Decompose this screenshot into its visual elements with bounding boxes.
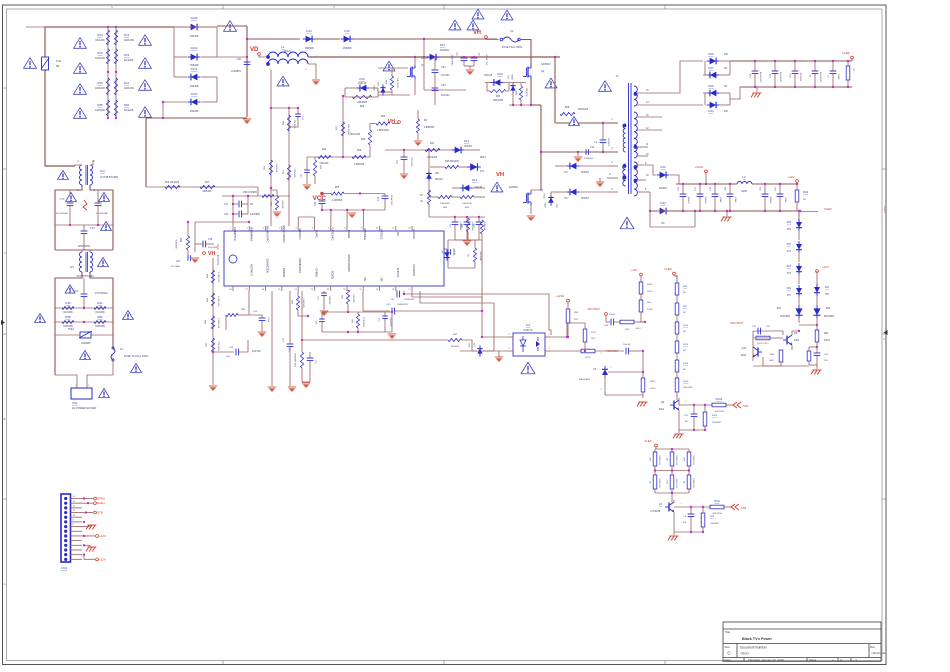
svg-text:6A/1206: 6A/1206 [95,39,105,42]
svg-text:33V: 33V [555,204,557,208]
svg-text:4401: 4401 [659,409,665,411]
svg-text:1.2K/0805: 1.2K/0805 [352,293,354,303]
svg-text:R79 1M/1206: R79 1M/1206 [165,181,180,184]
svg-text:LF2: LF2 [100,169,105,173]
svg-text:LF1: LF1 [70,266,75,269]
svg-text:1000uF: 1000uF [704,196,706,204]
svg-text:10R/1206: 10R/1206 [462,203,472,205]
svg-text:SNSAUXPFC: SNSAUXPFC [266,225,270,242]
svg-text:1uF/0805: 1uF/0805 [250,214,260,216]
svg-text:R23: R23 [124,53,130,57]
svg-text:D106: D106 [191,16,198,20]
svg-text:R82: R82 [124,103,130,107]
svg-text:D13: D13 [497,72,503,76]
svg-text:SUPIC: SUPIC [314,230,318,239]
svg-text:R30: R30 [65,301,71,305]
svg-text:C14: C14 [378,196,380,201]
svg-text:GATELS: GATELS [380,229,384,240]
svg-text:47V: 47V [787,273,792,275]
svg-text:DFNA: DFNA [97,497,105,501]
svg-text:470K/0805: 470K/0805 [362,317,364,328]
svg-text:NC: NC [363,277,367,281]
svg-text:KTC3228: KTC3228 [650,511,660,513]
svg-text:ZD14: ZD14 [544,193,546,199]
svg-text:D100: D100 [191,92,198,96]
svg-text:SNSOUT: SNSOUT [298,228,302,240]
svg-text:47V: 47V [787,251,792,253]
svg-text:D10: D10 [440,43,446,47]
svg-text:NC/1206: NC/1206 [95,312,105,314]
svg-text:10K/1206: 10K/1206 [714,411,724,413]
svg-text:470uF 35V: 470uF 35V [485,55,487,66]
svg-text:SNSMAINS: SNSMAINS [249,227,253,242]
svg-text:500V/68V: 500V/68V [410,157,412,167]
svg-text:101/1KV: 101/1KV [441,75,450,77]
svg-text:Size: Size [725,645,731,649]
svg-text:Black TVn Power: Black TVn Power [742,637,772,641]
svg-text:B: B [4,417,6,421]
svg-text:27V: 27V [480,170,485,173]
svg-text:CY3: CY3 [60,198,65,201]
svg-text:R24: R24 [97,33,103,37]
svg-text:R50: R50 [361,139,366,141]
svg-text:R88: R88 [97,103,103,107]
svg-text:20K/1206: 20K/1206 [683,387,693,389]
svg-text:10KO: 10KO [635,328,641,330]
svg-text:ZD1: ZD1 [787,288,792,290]
svg-text:50V: 50V [226,356,230,358]
svg-text:10R/1/4W: 10R/1/4W [493,100,504,102]
svg-text:6R/0805: 6R/0805 [451,346,460,348]
svg-text:+12V: +12V [631,268,638,272]
svg-text:1M/1206: 1M/1206 [124,39,134,42]
svg-text:SA/500V: SA/500V [509,186,519,189]
svg-text:NC/1206: NC/1206 [63,312,73,314]
svg-text:R115: R115 [683,344,689,346]
svg-text:10KO: 10KO [824,340,830,342]
svg-text:SNSCURHBC: SNSCURHBC [347,254,351,272]
svg-text:IC2B: IC2B [217,244,220,250]
svg-text:NC: NC [683,331,687,333]
svg-text:R104: R104 [716,397,723,401]
svg-text:1N4148: 1N4148 [484,75,493,77]
svg-text:R22: R22 [97,51,103,55]
svg-text:PROTECT: PROTECT [588,307,601,311]
svg-text:D102: D102 [191,46,198,50]
svg-text:100nF: 100nF [784,197,786,204]
svg-text:22N275VAC: 22N275VAC [78,245,91,248]
svg-text:1.5M/1206: 1.5M/1206 [217,296,219,307]
svg-text:R29: R29 [714,499,720,503]
svg-text:SUPHS: SUPHS [396,268,400,278]
svg-text:JUMP: JUMP [741,191,748,193]
svg-text:100uF: 100uF [734,197,736,204]
svg-text:NC: NC [250,204,254,206]
svg-text:FUSE T3.15A L 250V~: FUSE T3.15A L 250V~ [124,355,150,358]
svg-text:DADJ: DADJ [97,501,105,505]
svg-text:NC: NC [724,68,728,70]
svg-text:R91: R91 [803,190,809,194]
svg-text:SUPREG: SUPREG [363,228,367,240]
svg-text:NC: NC [683,292,687,294]
svg-text:1N4148W: 1N4148W [780,316,791,318]
svg-text:5R: 5R [56,64,59,68]
svg-text:C32: C32 [224,214,229,216]
svg-text:100NF/50V: 100NF/50V [404,299,415,301]
svg-text:1N5408: 1N5408 [190,85,199,88]
svg-text:NC: NC [803,199,807,201]
svg-text:+12VA: +12VA [695,165,704,169]
svg-text:10K/1206: 10K/1206 [712,513,722,515]
svg-text:D23: D23 [826,308,831,310]
svg-text:1N5408: 1N5408 [190,35,199,38]
svg-text:D101: D101 [191,67,198,71]
svg-text:10R/0805: 10R/0805 [440,203,450,205]
svg-text:10K/1/4W: 10K/1/4W [479,251,481,260]
svg-text:2.2R/0805: 2.2R/0805 [293,168,295,178]
svg-text:UF4007: UF4007 [452,248,454,256]
svg-text:NC: NC [661,223,665,225]
svg-text:6A/600V: 6A/600V [440,49,450,52]
svg-text:100nF: 100nF [837,74,839,81]
svg-text:CN2: CN2 [72,401,78,405]
svg-text:BAV40BV: BAV40BV [824,315,835,318]
svg-text:1M/1206: 1M/1206 [124,87,134,90]
svg-text:+LED: +LED [883,205,887,212]
svg-text:9.1V: 9.1V [474,342,476,347]
svg-text:D16: D16 [359,77,365,81]
svg-text:C34: C34 [176,261,181,263]
svg-text:22.5*28.5*10MM: 22.5*28.5*10MM [76,276,93,278]
svg-text:6A/1206: 6A/1206 [124,59,134,62]
svg-text:16V: 16V [378,82,380,86]
svg-text:RCPROT: RCPROT [249,264,253,276]
svg-text:ZD1: ZD1 [825,287,830,289]
svg-text:3.9K/0805: 3.9K/0805 [302,298,304,308]
svg-text:+12V: +12V [99,534,106,538]
svg-text:R89: R89 [97,315,103,319]
svg-text:TEA1716: TEA1716 [217,254,220,265]
svg-text:SNSCURPFC: SNSCURPFC [282,225,286,242]
svg-text:1.5M/1206: 1.5M/1206 [217,272,219,283]
svg-text:104 50V: 104 50V [252,350,261,353]
svg-text:C37: C37 [224,204,229,206]
svg-text:2.2uF/50V: 2.2uF/50V [389,317,391,327]
svg-text:68uF/450V: 68uF/450V [452,54,454,65]
svg-text:C84: C84 [237,58,242,61]
svg-text:101/1KV: 101/1KV [441,95,450,97]
svg-text:1000uF: 1000uF [769,196,771,204]
svg-text:1.88A/1206: 1.88A/1206 [377,129,389,132]
svg-text:27K/0805: 27K/0805 [217,341,219,351]
svg-text:SUPHV: SUPHV [412,229,416,239]
svg-text:D11: D11 [464,139,469,143]
svg-text:CP1: CP1 [441,66,446,69]
svg-text:82uF/160V: 82uF/160V [779,72,781,83]
svg-text:82uF/160V: 82uF/160V [759,72,761,83]
svg-text:43K/0805: 43K/0805 [293,120,295,129]
svg-text:R73: R73 [124,33,130,37]
svg-text:10KO: 10KO [650,388,656,390]
svg-text:1KO: 1KO [591,338,596,340]
svg-text:1M/1206: 1M/1206 [95,57,105,60]
svg-text:R21: R21 [124,81,130,85]
svg-text:IC1: IC1 [526,323,531,327]
svg-text:150K/1206: 150K/1206 [658,455,660,466]
svg-text:471/400VAC: 471/400VAC [56,212,69,215]
svg-text:R26: R26 [97,81,103,85]
svg-text:ZD13: ZD13 [480,156,487,159]
svg-text:C17: C17 [397,159,399,164]
svg-text:10R/0805: 10R/0805 [357,102,368,104]
svg-text:R102: R102 [650,381,656,383]
svg-text:3.9K/0805: 3.9K/0805 [275,163,277,173]
svg-text:1N5408: 1N5408 [190,110,199,113]
svg-text:+12VA: +12VA [556,294,564,298]
svg-text:R101: R101 [591,332,597,334]
svg-text:D25: D25 [708,52,714,56]
svg-text:18V: 18V [435,173,440,175]
svg-text:A: A [4,582,6,586]
svg-text:D50 NC: D50 NC [623,344,631,346]
svg-text:100uF/50V: 100uF/50V [390,195,392,206]
svg-text:R20 20K/0805: R20 20K/0805 [295,353,297,367]
svg-text:UF4007: UF4007 [464,146,473,148]
svg-text:250uH: 250uH [283,50,290,53]
svg-text:VLED: VLED [824,207,832,211]
svg-text:1M/1206: 1M/1206 [95,87,105,90]
svg-text:PROTECT: PROTECT [730,321,744,325]
svg-text:R128 10KO: R128 10KO [757,343,769,345]
svg-text:0R/1206: 0R/1206 [203,191,212,193]
svg-text:NC: NC [685,421,689,423]
svg-text:16V: 16V [508,75,510,79]
svg-text:1K: 1K [420,201,423,203]
svg-text:150K/1206: 150K/1206 [675,455,677,466]
svg-text:VH: VH [208,251,215,257]
svg-text:VD: VD [250,47,259,53]
svg-text:D21: D21 [777,308,782,310]
svg-text:<Doc>: <Doc> [740,652,750,656]
svg-text:R37: R37 [205,181,210,184]
svg-text:R92: R92 [824,333,829,335]
svg-text:D14: D14 [306,29,312,33]
svg-text:Date:: Date: [725,658,732,662]
svg-text:NC: NC [396,232,400,236]
svg-text:D24: D24 [708,109,714,113]
svg-text:L1: L1 [281,45,285,49]
svg-text:Title: Title [725,630,731,634]
svg-text:ZD19: ZD19 [374,85,376,91]
svg-text:3.3KO: 3.3KO [647,309,654,311]
svg-text:1N5408: 1N5408 [343,47,352,50]
svg-text:1.88A/1206: 1.88A/1206 [348,133,360,136]
svg-text:Rev: Rev [870,645,876,649]
svg-text:1.2M/1206: 1.2M/1206 [217,318,219,329]
svg-text:102/2KV: 102/2KV [607,138,609,147]
svg-text:10K/1206: 10K/1206 [525,88,527,98]
svg-text:D27: D27 [708,66,714,70]
svg-text:1N4148: 1N4148 [358,83,367,85]
svg-text:2.2uF: 2.2uF [267,317,269,323]
svg-text:HB: HB [380,277,384,281]
svg-text:ZD18A/: ZD18A/ [435,178,443,181]
svg-text:D12: D12 [472,178,478,182]
svg-text:2.2M/63M: 2.2M/63M [471,222,473,231]
svg-text:C10: C10 [590,147,595,149]
svg-text:330P/50V: 330P/50V [328,296,330,305]
svg-text:R88: R88 [65,315,71,319]
svg-text:PGND: PGND [347,230,351,238]
svg-text:Q10: Q10 [742,348,747,350]
svg-text:6R0/1206: 6R0/1206 [578,109,589,111]
svg-text:10K/0805: 10K/0805 [712,422,722,424]
svg-text:C: C [4,251,6,255]
svg-text:Sheet: Sheet [809,658,817,662]
svg-text:CN3: CN3 [61,566,67,570]
svg-text:ZD7: ZD7 [787,244,792,246]
svg-text:10KO: 10KO [769,360,775,362]
svg-text:VLED: VLED [664,267,671,271]
svg-text:GATEHS: GATEHS [412,265,416,276]
svg-text:100K/1206: 100K/1206 [692,478,694,489]
svg-text:4403: 4403 [741,355,747,357]
svg-text:UF4007: UF4007 [581,198,590,200]
svg-text:R32: R32 [181,237,183,242]
svg-text:VH: VH [473,30,481,36]
svg-text:6A/1206: 6A/1206 [124,109,134,112]
svg-text:100NF/50V: 100NF/50V [397,304,409,306]
svg-text:R118: R118 [683,363,689,365]
svg-text:R45 6R/1206: R45 6R/1206 [445,161,459,163]
svg-text:CFMIN: CFMIN [314,268,318,277]
svg-text:GATEPFC: GATEPFC [331,227,335,240]
svg-text:ZD16: ZD16 [545,202,547,208]
svg-text:<RevCode>: <RevCode> [871,651,887,655]
svg-text:R139: R139 [586,357,592,359]
svg-text:VH: VH [496,172,504,178]
svg-text:1N5408: 1N5408 [305,47,314,50]
svg-text:R48: R48 [565,107,570,109]
svg-text:of: of [840,658,843,662]
svg-text:NC: NC [683,350,687,352]
svg-text:20A45V: 20A45V [659,187,668,190]
svg-text:VLED: VLED [644,439,651,443]
svg-text:150K/1206: 150K/1206 [658,478,660,489]
svg-text:D34: D34 [660,201,666,205]
svg-text:4401: 4401 [794,340,800,342]
svg-text:STB: STB [741,506,746,510]
svg-text:+12V: +12V [822,265,829,269]
svg-text:1000uF: 1000uF [687,196,689,204]
svg-text:10R/1206: 10R/1206 [396,78,398,88]
svg-text:KIA431A-M: KIA431A-M [579,378,590,381]
svg-text:1000W/K: 1000W/K [81,343,91,345]
svg-text:Thursday, January 22, 2015: Thursday, January 22, 2015 [748,658,784,662]
svg-text:TNR1: TNR1 [68,328,75,331]
svg-text:SA/500V: SA/500V [541,63,551,66]
svg-text:CP2: CP2 [441,84,446,87]
svg-text:R42: R42 [97,301,103,305]
svg-text:ZD5: ZD5 [787,222,792,224]
svg-text:30K/0805: 30K/0805 [176,239,178,249]
svg-text:SCMD: SCMD [331,271,335,279]
svg-text:SNSBURST: SNSBURST [298,258,302,274]
svg-text:SSHBC/EN: SSHBC/EN [266,258,270,272]
svg-text:223/630V: 223/630V [584,158,594,160]
svg-text:Document Number: Document Number [740,646,768,650]
svg-text:22KO: 22KO [647,291,653,293]
svg-text:CX3: CX3 [90,227,95,230]
svg-text:ZD1B: ZD1B [512,74,514,80]
svg-text:1.88/1206: 1.88/1206 [354,164,365,166]
svg-text:R100: R100 [647,284,653,286]
svg-text:STB: STB [743,404,748,408]
svg-text:0.88R/5W: 0.88R/5W [424,127,435,129]
svg-text:1M/1206: 1M/1206 [95,109,105,112]
svg-text:150K/1206: 150K/1206 [675,478,677,489]
svg-text:D22: D22 [660,165,666,169]
svg-text:47V: 47V [787,295,792,297]
svg-text:R44: R44 [322,149,327,151]
svg-text:TH2: TH2 [56,59,62,63]
svg-text:D: D [4,86,6,90]
svg-text:150K/1206: 150K/1206 [692,455,694,466]
svg-text:22.5*28.5*10MM: 22.5*28.5*10MM [100,176,118,179]
svg-text:R114: R114 [683,325,689,327]
svg-text:C33: C33 [315,201,317,206]
svg-text:82uF/160V: 82uF/160V [819,72,821,83]
svg-text:2.2R/0805: 2.2R/0805 [332,200,343,202]
svg-text:AC POWER SOCKET: AC POWER SOCKET [72,407,97,410]
svg-text:103/450V: 103/450V [231,71,241,73]
svg-text:FUSE T2A L 250V: FUSE T2A L 250V [502,46,523,49]
svg-text:R41: R41 [430,143,435,145]
svg-text:VLED: VLED [842,51,850,55]
svg-text:NC: NC [724,86,728,88]
svg-text:R49: R49 [357,150,362,152]
svg-text:474 0805: 474 0805 [171,266,181,268]
svg-text:R69: R69 [360,106,365,108]
svg-text:D26: D26 [708,84,714,88]
svg-text:C: C [883,337,885,341]
svg-text:R105: R105 [712,415,718,417]
svg-text:20R/0805: 20R/0805 [347,124,349,134]
svg-text:L2: L2 [742,175,746,179]
svg-text:1KO: 1KO [574,319,579,321]
svg-text:SNSFB: SNSFB [282,268,286,277]
svg-text:15V: 15V [825,294,830,296]
svg-text:UF4007: UF4007 [581,172,590,174]
svg-text:R100: R100 [683,381,689,383]
svg-text:COMPPFC: COMPPFC [233,227,237,241]
svg-text:105/1206: 105/1206 [95,326,105,328]
svg-text:470/275VAC: 470/275VAC [95,292,108,295]
svg-text:STB: STB [97,511,103,515]
svg-text:10K/0805: 10K/0805 [710,523,720,525]
svg-text:NC/160V: NC/160V [799,73,801,82]
svg-text:R62: R62 [381,116,386,118]
svg-text:R36: R36 [496,96,501,98]
svg-text:+12V: +12V [788,175,795,179]
svg-text:PC817C: PC817C [523,329,532,332]
svg-text:100nF: 100nF [719,197,721,204]
svg-text:ZD3: ZD3 [787,266,792,268]
svg-text:+12V: +12V [99,557,106,561]
svg-text:100nF: 100nF [609,314,616,316]
svg-text:1.8K/0805: 1.8K/0805 [281,199,283,209]
svg-text:NC: NC [683,312,687,314]
